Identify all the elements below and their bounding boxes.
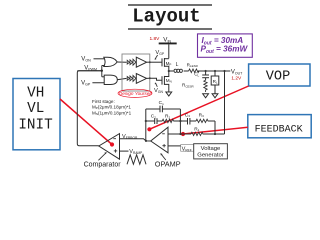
svg-text:1.8V: 1.8V [150,36,161,42]
red callout line from FEEDBACK box to R1 node [181,127,248,136]
svg-text:MN: MN [166,78,172,84]
buffer row2 out wire [147,77,150,79]
wire VPWM horizontal [77,70,102,72]
wire SW to inductor [169,70,174,72]
power rail bar [159,42,177,44]
sawtooth waveform [127,155,146,165]
node FB tap dot [223,70,225,72]
node VPWM dot [101,70,103,72]
wire to VOUT [198,70,231,72]
voltage generator box [194,144,228,159]
wire gate MP [150,61,162,63]
compensation left rail [145,109,147,141]
buffer row2 inverters [127,74,146,84]
svg-text:1.2V: 1.2V [231,76,242,82]
compensation right rail [179,109,181,134]
label VREF [181,145,194,152]
wire into gate1 lower [102,65,105,67]
opamp plus input wire [168,145,182,147]
title overline [128,4,212,6]
svg-text:OPAMP: OPAMP [155,160,181,169]
wire gate MN [150,78,162,80]
R1 row [180,132,224,135]
svg-text:FEEDBACK: FEEDBACK [255,124,303,135]
box FEEDBACK [248,115,311,138]
title underline [128,28,212,30]
resistor RCESR vertical zigzag [204,80,207,92]
svg-text:VH: VH [27,86,44,102]
svg-text:RCESR: RCESR [182,83,194,89]
svg-text:Layout: Layout [132,5,200,27]
svg-text:VOP: VOP [266,70,290,85]
svg-text:Voltage: Voltage [201,146,221,152]
opamp triangle [151,127,168,153]
gate G2 (AND) [104,75,117,84]
capacitor C1 row [146,106,181,113]
svg-text:Comparator: Comparator [84,161,122,168]
box VOP [249,64,310,86]
svg-text:MN(1μm/0.18μm)*1: MN(1μm/0.18μm)*1 [92,110,132,116]
wire gate1 out [117,61,126,63]
red callout line from VH box to comparator [60,99,114,147]
load RL box [211,71,219,94]
wire into gate2 upper [102,76,105,78]
C3 R3 row [180,118,215,134]
gate G1 (OR) [104,57,117,66]
svg-text:VL: VL [27,101,44,117]
svg-text:C1: C1 [159,100,164,106]
comparator plus input wire [120,150,129,152]
transistor MP [162,58,171,71]
svg-text:Generator: Generator [197,153,224,159]
resistor RLESR zigzag [189,69,199,73]
first stage text [92,99,132,116]
wire VON [94,58,105,60]
node CL dot [205,70,207,72]
svg-text:RLESR: RLESR [187,62,199,68]
svg-text:Design Yourself: Design Yourself [119,91,152,96]
svg-text:C3: C3 [185,112,190,118]
svg-text:R3: R3 [199,112,204,118]
svg-text:L: L [176,62,179,68]
comparator minus input wire / VERROR wire [120,139,151,141]
svg-text:CL: CL [194,72,199,78]
comparator loop wire [77,71,102,146]
svg-text:C2: C2 [151,114,156,120]
C2 R2 row [146,118,181,124]
annotation box Iout/Pout [198,34,253,57]
buffer row1 out wire [147,61,150,63]
ground CL [203,94,209,98]
opamp plus [162,144,165,147]
red ellipse Design Yourself [118,89,152,97]
buffer box [122,54,150,91]
buffer row1 inverters [127,57,146,67]
opamp output node dot [145,140,147,142]
svg-text:RL: RL [213,79,218,85]
node SW dot [168,70,170,72]
svg-text:First stage:: First stage: [92,99,115,104]
comparator plus [114,149,117,152]
transistor MN [162,71,172,92]
node RL dot [214,70,216,72]
red callout line from VOP box to opamp compensation node [147,86,248,131]
wire inductor to RLESR [184,70,189,72]
wire VGP [92,82,104,84]
wire gate2 out [117,78,126,79]
opamp minus [162,133,165,135]
capacitor CL [202,71,209,80]
inductor L coil [174,69,182,72]
wire VIN down [168,44,170,58]
svg-text:R1: R1 [194,126,199,132]
wire VPWM branch vertical [101,66,103,77]
svg-text:INIT: INIT [18,118,53,134]
opamp minus input wire [168,133,180,135]
svg-text:MP: MP [166,61,172,67]
comparator minus [113,138,116,140]
box VH VL INIT [13,79,60,150]
ground MN [166,92,172,96]
ground RL [212,94,218,98]
feedback tap wire down [224,71,226,134]
comparator triangle [99,134,120,160]
svg-text:MP(2μm/0.18μm)*1: MP(2μm/0.18μm)*1 [92,104,131,110]
